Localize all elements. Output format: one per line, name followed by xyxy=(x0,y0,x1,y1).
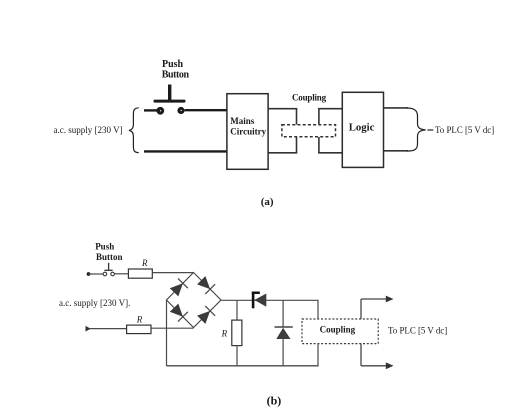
svg-text:Coupling: Coupling xyxy=(320,324,356,334)
svg-text:To PLC [5 V dc]: To PLC [5 V dc] xyxy=(435,125,494,135)
svg-text:Button: Button xyxy=(96,252,123,262)
svg-text:a.c. supply [230 V].: a.c. supply [230 V]. xyxy=(59,298,130,308)
svg-text:To PLC [5 V dc]: To PLC [5 V dc] xyxy=(388,326,447,336)
svg-text:Push: Push xyxy=(95,242,114,252)
svg-text:Logic: Logic xyxy=(349,122,375,134)
svg-text:Circuitry: Circuitry xyxy=(230,126,266,136)
svg-text:R: R xyxy=(141,258,148,268)
svg-text:Button: Button xyxy=(162,70,190,81)
svg-text:Mains: Mains xyxy=(230,116,255,126)
svg-text:Push: Push xyxy=(162,59,184,70)
svg-text:R: R xyxy=(221,329,228,339)
svg-text:Coupling: Coupling xyxy=(292,92,327,102)
svg-text:R: R xyxy=(136,314,143,324)
svg-text:(a): (a) xyxy=(261,196,274,208)
svg-text:a.c. supply [230 V]: a.c. supply [230 V] xyxy=(54,125,123,135)
svg-text:(b): (b) xyxy=(267,394,282,408)
